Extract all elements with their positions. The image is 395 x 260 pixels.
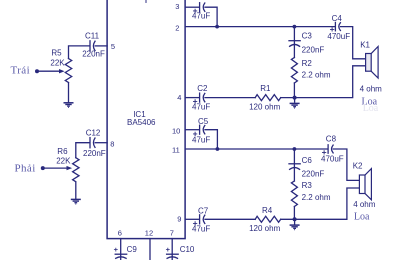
- ground R5: [64, 103, 74, 108]
- node junction C5/pin11: [216, 147, 220, 151]
- capacitor C11 220nF: [89, 41, 91, 51]
- capacitor C8 470uF: [327, 145, 329, 153]
- svg-text:4: 4: [177, 93, 181, 102]
- svg-text:R5: R5: [51, 48, 62, 57]
- svg-text:470uF: 470uF: [321, 155, 344, 164]
- svg-text:C3: C3: [302, 32, 313, 41]
- svg-text:C9: C9: [127, 245, 138, 254]
- node junction C6 branch: [293, 147, 297, 151]
- svg-text:220nF: 220nF: [302, 170, 325, 179]
- node input Phai terminal: [41, 166, 45, 170]
- resistor R1 120 ohm: [255, 95, 280, 101]
- node junction C3 branch: [293, 25, 297, 29]
- wire R4 to junction to speaker K2 bottom: [281, 188, 360, 219]
- svg-text:R1: R1: [260, 84, 271, 93]
- speaker K1: [366, 54, 372, 72]
- node junction C1/pin2: [215, 25, 219, 29]
- svg-text:R2: R2: [302, 59, 313, 68]
- svg-text:6: 6: [118, 228, 122, 237]
- capacitor C9: [115, 253, 127, 255]
- wire wiper arrow R5: [37, 70, 61, 72]
- svg-text:K1: K1: [360, 40, 370, 49]
- wire pin7 stub to C10: [171, 239, 173, 260]
- svg-text:12: 12: [145, 228, 153, 237]
- svg-text:C8: C8: [326, 135, 337, 144]
- svg-text:+: +: [114, 245, 119, 254]
- svg-text:220nF: 220nF: [83, 149, 106, 158]
- svg-text:BA5406: BA5406: [127, 118, 156, 127]
- svg-text:4 ohm: 4 ohm: [353, 200, 376, 209]
- resistor R2 2.2 ohm: [291, 58, 297, 84]
- svg-text:2: 2: [175, 24, 179, 33]
- wire pin10 stub: [185, 129, 199, 131]
- ground at R4/R3 junction: [290, 219, 300, 229]
- op-amp IC1 BA5406 package outline: [107, 0, 185, 239]
- capacitor C6 220nF: [289, 163, 300, 165]
- svg-text:C11: C11: [85, 31, 100, 40]
- svg-text:+: +: [193, 5, 198, 15]
- wire pin4 stub: [185, 97, 199, 99]
- wire pin11 output: [185, 148, 328, 150]
- svg-text:220nF: 220nF: [302, 46, 325, 55]
- wire R5 to ground: [68, 83, 70, 102]
- capacitor C5 47uF: [199, 125, 201, 134]
- wire C6 branch: [293, 149, 295, 181]
- wire pin9 stub: [185, 218, 199, 220]
- svg-text:220nF: 220nF: [82, 49, 105, 58]
- node input Trai terminal: [35, 69, 39, 73]
- svg-text:47uF: 47uF: [192, 135, 210, 144]
- svg-text:47uF: 47uF: [192, 225, 210, 234]
- wire R6 to ground: [75, 182, 77, 199]
- svg-text:C7: C7: [198, 206, 209, 215]
- ground at R1/R2 junction: [290, 98, 300, 108]
- svg-text:10: 10: [172, 126, 180, 135]
- resistor R4 120 ohm: [255, 216, 280, 222]
- svg-text:120 ohm: 120 ohm: [249, 224, 280, 233]
- resistor R3 2.2 ohm: [291, 181, 297, 207]
- wire C1 to node: [205, 7, 217, 26]
- node junction R4/R3/ground: [293, 217, 297, 221]
- svg-text:22K: 22K: [50, 59, 65, 68]
- capacitor C3 220nF: [289, 40, 300, 42]
- capacitor C7 47uF: [199, 215, 201, 224]
- svg-text:C6: C6: [302, 156, 313, 165]
- speaker K2: [359, 175, 365, 194]
- svg-text:C2: C2: [197, 84, 208, 93]
- svg-text:7: 7: [170, 228, 174, 237]
- svg-text:11: 11: [172, 146, 180, 155]
- svg-text:8: 8: [110, 139, 114, 148]
- wire C11 row to pin5: [69, 46, 90, 59]
- svg-text:47uF: 47uF: [192, 102, 210, 111]
- wire C12 row to pin8: [76, 143, 90, 158]
- wire C7 to R4: [205, 218, 255, 220]
- capacitor C10: [167, 253, 179, 255]
- node junction R1/R2/ground: [293, 96, 297, 100]
- wire R3 to junction: [293, 207, 295, 220]
- wire R2 to junction: [293, 83, 295, 98]
- wire wiper arrow R6: [43, 167, 68, 169]
- svg-text:Loa: Loa: [363, 103, 379, 114]
- wire pin6 stub to C9: [120, 239, 122, 260]
- svg-text:K2: K2: [353, 162, 363, 171]
- wire C12 to IC pin8: [95, 142, 107, 144]
- svg-text:+: +: [166, 245, 171, 254]
- svg-text:R4: R4: [262, 206, 273, 215]
- wire pin12 down: [149, 239, 151, 260]
- wire stub top cut: [145, 0, 147, 2]
- wire C5 to node: [205, 130, 217, 149]
- svg-text:Phải: Phải: [15, 162, 36, 174]
- potentiometer R5 22K body: [65, 59, 71, 83]
- ground R6: [71, 199, 81, 204]
- capacitor C2 47uF: [199, 93, 201, 102]
- wire C4 to speaker K1 top: [341, 27, 366, 59]
- svg-text:C10: C10: [180, 245, 195, 254]
- svg-text:Trái: Trái: [11, 65, 31, 77]
- svg-text:5: 5: [111, 42, 115, 51]
- wire C8 to speaker K2 top: [333, 149, 359, 180]
- svg-text:3: 3: [175, 2, 179, 11]
- svg-text:120 ohm: 120 ohm: [249, 102, 280, 111]
- capacitor C12 220nF: [89, 138, 91, 148]
- wire C11 to IC pin5: [95, 45, 107, 47]
- svg-text:9: 9: [177, 215, 181, 224]
- capacitor C4 470uF: [334, 22, 336, 30]
- potentiometer R6 22K body: [73, 158, 79, 182]
- svg-text:2.2 ohm: 2.2 ohm: [302, 193, 331, 202]
- svg-text:22K: 22K: [56, 156, 71, 165]
- capacitor C1 47uF: [199, 3, 201, 12]
- wire R1 to junction to speaker K1 bottom: [281, 66, 366, 98]
- wire C2 to R1: [205, 97, 255, 99]
- wire C3 branch: [293, 27, 295, 58]
- svg-text:C12: C12: [86, 129, 101, 138]
- svg-text:470uF: 470uF: [327, 32, 350, 41]
- svg-text:R6: R6: [57, 147, 68, 156]
- svg-text:Loa: Loa: [354, 211, 370, 222]
- svg-text:2.2 ohm: 2.2 ohm: [302, 71, 331, 80]
- svg-text:R3: R3: [302, 181, 313, 190]
- wire pin3 stub: [185, 6, 199, 8]
- svg-text:C4: C4: [332, 14, 343, 23]
- svg-text:C5: C5: [198, 117, 209, 126]
- svg-text:4 ohm: 4 ohm: [360, 84, 383, 93]
- wire pin2 output: [185, 26, 335, 28]
